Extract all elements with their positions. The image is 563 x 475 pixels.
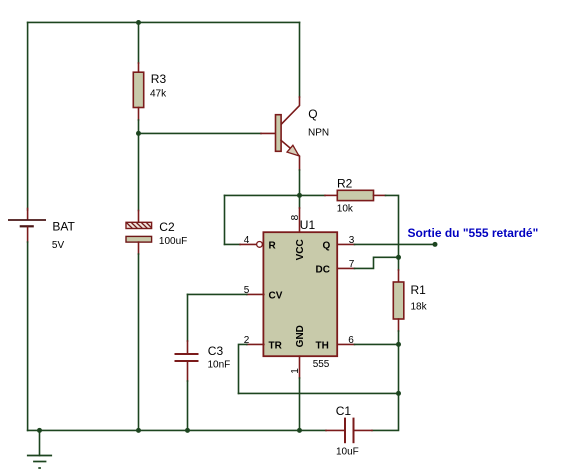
transistor Q collector pin [281,97,300,125]
svg-text:10uF: 10uF [336,447,359,458]
resistor R2 pin right [374,194,386,196]
svg-text:Q: Q [323,241,331,252]
wire: R3 branch from top rail [138,22,140,63]
svg-text:BAT: BAT [52,220,75,234]
svg-text:3: 3 [349,235,355,246]
capacitor C2 pin bottom [138,242,140,254]
wire: emitter to VCC node [299,170,301,195]
555 pin 1 stub [299,356,301,378]
555 pin 4 stub with inversion bubble [240,243,256,245]
svg-text:C2: C2 [159,220,175,234]
svg-text:Sortie du "555 retardé": Sortie du "555 retardé" [408,226,539,240]
resistor R3 pin bottom [138,108,140,121]
svg-text:Q: Q [308,107,317,121]
555 pin 7 stub [337,267,354,269]
wire: C2 bottom to bottom rail [138,254,140,430]
capacitor C1 pin left [326,429,345,431]
wire: collector drop from top rail [299,22,301,97]
capacitor C1 plate right [353,418,355,444]
svg-text:2: 2 [244,335,250,346]
battery BAT pin top [27,209,29,220]
svg-text:6: 6 [348,335,354,346]
resistor R1 body [393,282,404,319]
capacitor C3 plate top [175,353,199,355]
junction: TR loop on right vertical [396,391,401,396]
capacitor C2 pin top [138,211,140,223]
wire: +5V top rail [28,21,300,23]
capacitor C3 plate bottom [175,360,199,362]
resistor R1 pin top [398,270,400,282]
resistor R2 pin left [325,194,337,196]
555 pin 5 stub [247,293,264,295]
junction: TH node [396,342,401,347]
svg-text:DC: DC [316,265,330,276]
svg-text:C3: C3 [208,344,224,358]
capacitor C2 plate top (hatched, + plate) [126,222,152,228]
svg-text:R3: R3 [151,72,167,86]
svg-text:7: 7 [349,259,355,270]
ground symbol [27,456,52,469]
svg-text:TH: TH [316,341,329,352]
wire: VCC node left toward reset loop [225,194,300,196]
junction: C3 branch on bottom rail [185,428,190,433]
wire: node down to R1 [398,257,400,270]
op-amp U1: 555 timer body [263,232,337,356]
wire: TR loop horizontal to right vertical [239,392,399,394]
battery BAT plate long [8,219,46,221]
capacitor C2 plate bottom [126,236,152,242]
svg-text:R1: R1 [411,283,427,297]
junction: top rail / R3 branch [136,20,141,25]
wire: reset loop vertical [224,195,226,244]
capacitor C3 pin top [187,341,189,353]
wire: VCC node right to R2 [300,194,326,196]
wire: TH pin to right vertical [355,343,399,345]
node: Sortie du 555 retarde [433,242,438,247]
transistor Q base pin [261,132,276,134]
svg-text:555: 555 [313,359,330,370]
wire: base node down to C2 [138,133,140,210]
transistor Q emitter pin with arrow [281,140,300,170]
svg-text:18k: 18k [411,301,428,312]
555 pin 8 wire [299,195,301,208]
wire: bottom ground rail left section [28,429,326,431]
junction: VCC node (emitter / R2 / pin8 / reset loop) [297,193,302,198]
svg-text:1: 1 [290,368,301,374]
junction: R2/DC/R1 node [396,255,401,260]
resistor R3 body [133,72,143,107]
555 pin 6 stub [337,343,354,345]
junction: GND pin on bottom rail [297,428,302,433]
junction: C2 branch on bottom rail [136,428,141,433]
svg-text:10k: 10k [337,204,354,215]
svg-text:NPN: NPN [308,128,329,139]
555 pin 3 stub [337,243,354,245]
555 pin 2 stub [247,343,264,345]
capacitor C1 pin right [354,429,373,431]
capacitor C3 pin bottom [187,362,189,381]
wire: C3 bottom to bottom rail [187,381,189,430]
wire: R2 right corner down [386,195,399,257]
555 pin 8 stub [299,208,301,232]
resistor R3 pin top [138,63,140,72]
wire: right vertical TH node to TR node [398,344,400,393]
wire: DC pin jog up to R2/R1 node [355,257,399,268]
svg-text:R: R [269,241,277,252]
junction: ground stub on bottom rail [37,428,42,433]
svg-text:R2: R2 [337,177,353,191]
transistor Q body bar [276,115,282,152]
svg-text:10nF: 10nF [208,359,231,370]
wire: R3 bottom to base node [138,120,140,133]
wire: CV pin left to C3 branch [188,293,247,295]
wire: GND pin to bottom rail [299,378,301,430]
junction: base node [136,131,141,136]
resistor R1 pin bottom [398,319,400,331]
capacitor C1 plate left [344,418,346,444]
resistor R2 body [337,190,373,200]
svg-text:GND: GND [295,325,306,347]
wire: R1 bottom to TH node [398,331,400,344]
battery BAT pin bottom [27,227,29,242]
wire: output to Sortie node [355,243,436,245]
svg-text:5: 5 [244,285,250,296]
wire: ground stub [39,430,41,455]
svg-text:47k: 47k [150,88,167,99]
svg-text:U1: U1 [300,218,316,232]
svg-text:8: 8 [290,214,301,220]
wire: C3 branch vertical [187,294,189,341]
wire: base node to Q base [139,132,262,134]
svg-text:CV: CV [269,291,283,302]
battery BAT plate short [20,225,34,227]
wire: TR loop left and down [239,344,247,393]
wire: left vertical from battery - to bottom rail [27,242,29,430]
wire: right vertical TR node down and into C1 [372,393,399,430]
svg-text:100uF: 100uF [159,236,187,247]
svg-text:VCC: VCC [295,239,306,260]
svg-text:5V: 5V [52,240,65,251]
svg-text:C1: C1 [336,404,352,418]
wire: reset loop horizontal to pin 4 [225,243,241,245]
svg-text:4: 4 [244,235,250,246]
svg-text:TR: TR [269,341,283,352]
wire: left vertical from top rail to battery + [27,22,29,210]
